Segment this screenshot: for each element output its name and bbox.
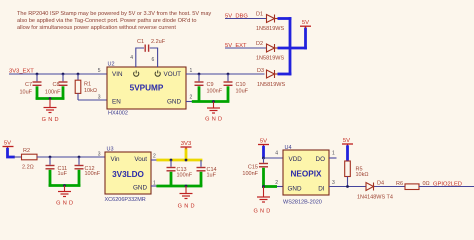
- svg-text:GND: GND: [42, 117, 61, 123]
- op-amp U2 5VPUMP body: [107, 61, 186, 116]
- wire 3V3_EXT to VIN: [9, 73, 107, 75]
- power 5V bus: [300, 20, 311, 29]
- svg-text:4: 4: [275, 151, 278, 157]
- capacitor C7: [19, 74, 41, 96]
- svg-text:2: 2: [275, 180, 278, 186]
- resistor R2: [14, 148, 37, 171]
- svg-text:R6: R6: [396, 181, 403, 187]
- wire thick 5V bus vertical: [289, 17, 292, 75]
- svg-text:VOUT: VOUT: [164, 71, 182, 78]
- svg-text:VIN: VIN: [112, 71, 123, 78]
- svg-text:1N5819WS: 1N5819WS: [256, 26, 284, 32]
- svg-text:5V: 5V: [302, 20, 309, 26]
- svg-text:2.2Ω: 2.2Ω: [22, 165, 34, 171]
- wire 5V_DBG to D1: [225, 18, 267, 20]
- ground F: [253, 187, 272, 215]
- node at C11: [49, 156, 52, 159]
- capacitor C8: [45, 74, 68, 96]
- svg-text:HX4002: HX4002: [108, 111, 128, 117]
- node at C13: [170, 159, 173, 162]
- svg-text:GND: GND: [288, 185, 302, 192]
- ground C: [205, 102, 224, 123]
- wire R2 to Vin: [37, 156, 107, 158]
- wire green C13/C14 to GND: [156, 172, 202, 186]
- svg-text:10uF: 10uF: [236, 88, 249, 94]
- svg-text:5V: 5V: [260, 138, 267, 144]
- svg-text:U3: U3: [107, 147, 114, 153]
- svg-text:U4: U4: [285, 145, 292, 151]
- capacitor C14: [197, 160, 217, 178]
- wire R6 to GPIO2LED: [419, 186, 474, 188]
- svg-text:DI: DI: [318, 185, 325, 192]
- svg-text:10uF: 10uF: [19, 90, 32, 96]
- svg-text:D1: D1: [256, 12, 263, 18]
- node at C7: [36, 73, 39, 76]
- capacitor C15: [242, 158, 268, 177]
- svg-text:D4: D4: [377, 180, 384, 186]
- diode D3: [267, 70, 279, 78]
- wire Vout stub: [151, 159, 157, 161]
- node at C9: [198, 73, 201, 76]
- ground U3: [178, 186, 197, 210]
- svg-text:C15: C15: [248, 165, 258, 171]
- pump icon left: [134, 70, 139, 76]
- node at 3V3 riser: [185, 159, 188, 162]
- power 5V pullup: [342, 138, 353, 147]
- svg-text:100nF: 100nF: [207, 88, 223, 94]
- svg-text:The RP2040 ISP Stamp may be po: The RP2040 ISP Stamp may be powered by 5…: [17, 11, 211, 17]
- svg-text:5V: 5V: [343, 138, 350, 144]
- node GND U3: [185, 185, 188, 188]
- svg-text:DO: DO: [316, 156, 326, 163]
- svg-text:5: 5: [98, 68, 101, 74]
- svg-text:100nF: 100nF: [45, 90, 61, 96]
- wire GND pin2 stub: [277, 186, 283, 188]
- svg-text:1uF: 1uF: [58, 171, 68, 177]
- wire green C9/C10 to GND: [192, 86, 230, 101]
- wire thick D3 cathode: [278, 73, 292, 76]
- svg-text:3: 3: [98, 95, 101, 101]
- power 5V NEOPIX: [258, 138, 269, 147]
- svg-text:5VPUMP: 5VPUMP: [130, 84, 164, 93]
- svg-text:GND: GND: [253, 209, 272, 215]
- capacitor C13: [167, 160, 193, 178]
- svg-text:D2: D2: [256, 41, 263, 47]
- wire DI to D4: [329, 186, 367, 188]
- svg-text:GND: GND: [167, 98, 181, 105]
- svg-text:D3: D3: [257, 68, 264, 74]
- wire 5V_EXT to D2: [225, 47, 267, 49]
- svg-text:3V3: 3V3: [181, 141, 192, 147]
- node at C8: [62, 73, 65, 76]
- svg-text:5V: 5V: [4, 140, 11, 146]
- wire thick 5V to R5: [346, 145, 349, 161]
- wire C1 left: [136, 48, 144, 67]
- capacitor C12: [75, 157, 101, 177]
- svg-text:3: 3: [98, 152, 101, 158]
- capacitor C10: [224, 74, 249, 94]
- svg-text:100nF: 100nF: [242, 171, 258, 177]
- svg-text:C7: C7: [25, 82, 32, 88]
- ground E: [56, 186, 75, 207]
- node GND F: [262, 185, 265, 188]
- svg-text:R1: R1: [84, 82, 91, 88]
- svg-text:EN: EN: [112, 98, 121, 105]
- svg-text:C9: C9: [207, 82, 214, 88]
- resistor R5: [345, 161, 369, 187]
- svg-text:100nF: 100nF: [177, 172, 193, 178]
- svg-text:2: 2: [153, 153, 156, 159]
- note text: [17, 11, 211, 31]
- node at C12: [78, 156, 81, 159]
- svg-text:1: 1: [190, 68, 193, 74]
- wire thick 5V stem: [304, 28, 307, 50]
- svg-text:GND: GND: [178, 204, 197, 210]
- svg-text:C8: C8: [52, 82, 59, 88]
- svg-text:10kΩ: 10kΩ: [356, 172, 369, 178]
- svg-text:1: 1: [332, 151, 335, 157]
- node VDD: [262, 157, 265, 160]
- op-amp U3 3V3LDO body: [105, 147, 152, 203]
- svg-text:1N5819WS: 1N5819WS: [256, 55, 284, 61]
- wire D4 to R6: [375, 186, 406, 188]
- svg-text:GND: GND: [56, 201, 75, 207]
- wire C1 right: [150, 48, 158, 67]
- svg-text:1N5819WS: 1N5819WS: [257, 82, 285, 88]
- svg-text:2.2uF: 2.2uF: [151, 39, 166, 45]
- svg-text:1uF: 1uF: [207, 172, 217, 178]
- resistor R1: [75, 74, 97, 100]
- svg-text:GPIO2LED: GPIO2LED: [433, 181, 462, 187]
- ground A: [42, 99, 61, 124]
- wire VDD: [264, 157, 284, 159]
- svg-text:GND: GND: [133, 184, 147, 191]
- svg-text:3V3LDO: 3V3LDO: [112, 170, 144, 179]
- wire thick 5V to VDD: [262, 146, 265, 159]
- wire GND U3 stub: [151, 185, 157, 187]
- capacitor C9: [195, 74, 223, 94]
- svg-text:GND: GND: [205, 117, 224, 123]
- wire R1 to EN: [78, 99, 107, 101]
- wire thick D2 cathode to 5V branch: [278, 47, 307, 50]
- wire yellow 3V3 riser: [185, 148, 188, 161]
- wire green C7/C8 to GND: [36, 86, 65, 99]
- diode D4: [366, 183, 375, 191]
- svg-text:WS2812B-2020: WS2812B-2020: [283, 199, 322, 205]
- wire DO stub: [329, 157, 337, 159]
- svg-text:also be applied via the Tag-Co: also be applied via the Tag-Connect port…: [17, 18, 196, 24]
- svg-text:allow for simultaneous power a: allow for simultaneous power application…: [17, 25, 176, 31]
- svg-text:Vin: Vin: [111, 156, 120, 163]
- svg-text:2: 2: [190, 95, 193, 101]
- diode D1: [267, 15, 279, 23]
- svg-text:U2: U2: [108, 61, 115, 67]
- svg-text:Vout: Vout: [134, 156, 147, 163]
- svg-text:6: 6: [152, 57, 155, 63]
- svg-text:VDD: VDD: [289, 156, 303, 163]
- resistor R6: [396, 181, 430, 190]
- diode D2: [267, 44, 279, 52]
- node R5/DI: [346, 185, 349, 188]
- node at R1: [77, 73, 80, 76]
- wire thick D1 cathode: [278, 17, 292, 20]
- svg-text:C10: C10: [236, 82, 246, 88]
- svg-text:XC6206P332MR: XC6206P332MR: [105, 197, 146, 203]
- op-amp U4 NEOPIX body: [283, 145, 329, 206]
- node GND E: [63, 184, 66, 187]
- node GND A: [49, 97, 52, 100]
- svg-text:100nF: 100nF: [85, 171, 101, 177]
- svg-text:1N4148WS T4: 1N4148WS T4: [357, 195, 393, 201]
- svg-text:NEOPIX: NEOPIX: [291, 169, 322, 178]
- wire green C11/C12 to GND: [49, 170, 81, 187]
- wire VOUT rail: [186, 73, 265, 75]
- svg-text:0Ω: 0Ω: [423, 181, 430, 187]
- svg-text:C1: C1: [137, 39, 144, 45]
- capacitor C1: [137, 39, 166, 52]
- wire thick 5V to R2: [8, 148, 15, 157]
- svg-text:R2: R2: [23, 148, 30, 154]
- svg-text:1: 1: [153, 180, 156, 186]
- svg-text:10kΩ: 10kΩ: [84, 88, 97, 94]
- wire yellow 3V3 rail: [156, 159, 202, 162]
- wire GND pin2 stub: [186, 101, 192, 103]
- svg-text:3: 3: [332, 180, 335, 186]
- power 3V3: [181, 141, 192, 150]
- svg-text:4: 4: [130, 55, 133, 61]
- node at C10: [227, 73, 230, 76]
- power 5V LDO input: [3, 140, 14, 149]
- wire green C15 to GND pin2: [262, 168, 277, 188]
- node GND C: [212, 100, 215, 103]
- capacitor C11: [46, 157, 68, 177]
- pump icon right: [155, 70, 160, 76]
